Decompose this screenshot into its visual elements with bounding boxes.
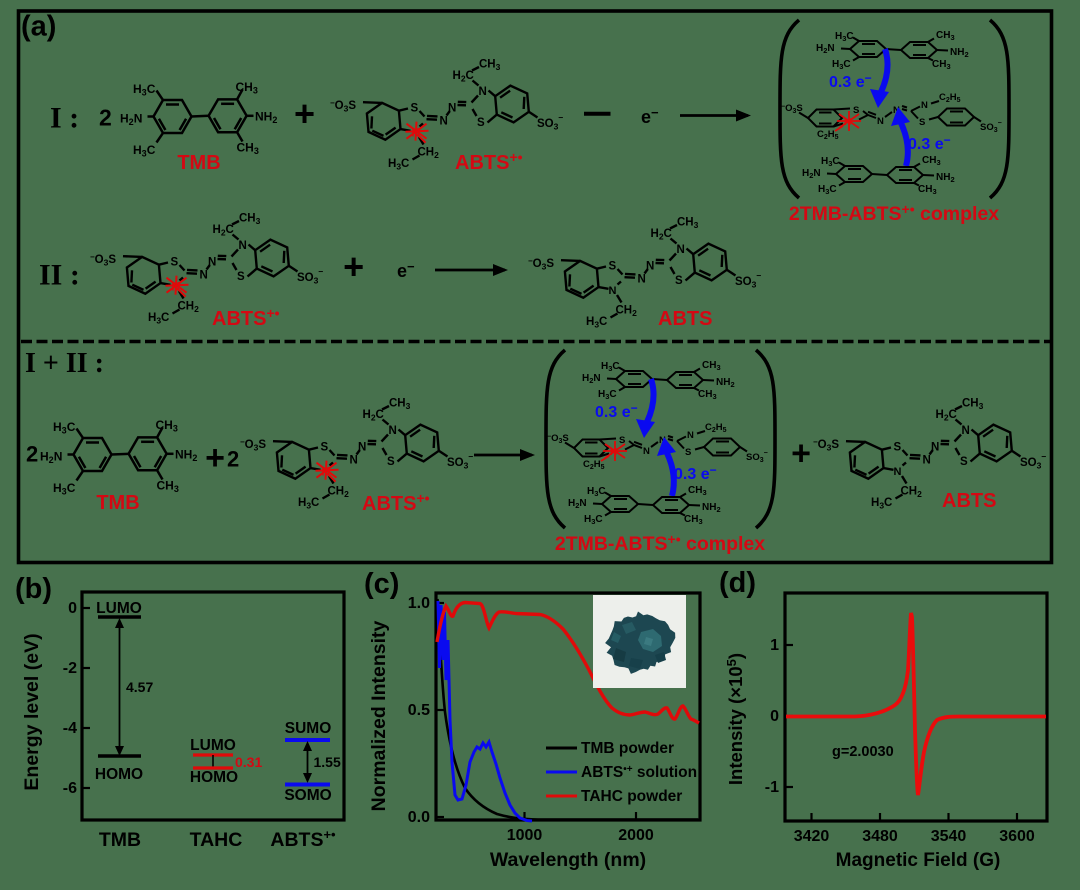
ABTS neutral molecule row III: [813, 398, 1046, 511]
svg-text:TMB: TMB: [177, 152, 220, 174]
reaction arrow row I: [680, 114, 748, 117]
svg-text:1.0: 1.0: [408, 595, 430, 612]
ABTS SUMO blue level: [285, 738, 330, 742]
svg-text:HOMO: HOMO: [95, 766, 143, 783]
svg-text:0: 0: [68, 600, 77, 617]
svg-text:SOMO: SOMO: [284, 787, 331, 804]
svg-text:0.0: 0.0: [408, 809, 430, 826]
svg-text:TMB: TMB: [99, 829, 141, 851]
svg-text:3420: 3420: [794, 828, 830, 845]
svg-text:0: 0: [770, 708, 779, 725]
ABTS radical molecule row III: [240, 398, 473, 511]
svg-text:3540: 3540: [931, 828, 967, 845]
red EPR curve: [786, 613, 1046, 795]
svg-text:I :: I :: [50, 102, 79, 135]
TAHC LUMO red level: [193, 753, 233, 756]
panel (a) frame: [19, 11, 1052, 563]
svg-text:0.31: 0.31: [235, 754, 262, 770]
svg-text:(d): (d): [719, 567, 756, 599]
TMB gap arrow: [119, 621, 121, 753]
svg-text:Intensity (×105): Intensity (×105): [724, 653, 746, 785]
svg-text:TMB: TMB: [96, 492, 139, 514]
svg-text:(a): (a): [21, 11, 56, 43]
svg-text:2: 2: [99, 105, 112, 131]
reaction arrow row II: [435, 269, 505, 272]
svg-text:2000: 2000: [618, 827, 654, 844]
svg-text:Energy level (eV): Energy level (eV): [21, 633, 43, 790]
blue ABTS solution curve: [438, 601, 532, 821]
panel (c) frame: [436, 593, 700, 820]
svg-text:4.57: 4.57: [126, 679, 153, 695]
svg-text:-1: -1: [765, 779, 779, 796]
svg-text:-6: -6: [63, 780, 77, 797]
svg-text:II :: II :: [39, 259, 80, 292]
svg-text:0.5: 0.5: [408, 702, 430, 719]
powder blob: [605, 612, 675, 674]
panel (d) ticks: [785, 645, 1017, 821]
red TAHC powder curve: [437, 603, 699, 724]
complex row I: [780, 20, 1009, 225]
svg-text:I + II :: I + II :: [25, 348, 104, 379]
svg-text:HOMO: HOMO: [190, 769, 238, 786]
reaction arrow row III: [474, 454, 532, 457]
panel (c) y ticks: [436, 603, 636, 820]
ABTS SOMO blue level: [285, 783, 330, 787]
svg-text:-2: -2: [63, 660, 77, 677]
svg-text:+: +: [205, 439, 225, 477]
svg-text:LUMO: LUMO: [190, 737, 236, 754]
svg-text:1000: 1000: [507, 827, 543, 844]
panel (b) y ticks: [82, 608, 90, 788]
ABTS radical molecule row II: [90, 213, 323, 326]
minus sign: [584, 112, 611, 116]
black TMB powder curve: [438, 599, 699, 820]
svg-text:1: 1: [770, 637, 779, 654]
svg-text:LUMO: LUMO: [96, 600, 142, 617]
svg-text:+: +: [791, 435, 811, 473]
TMB molecule row III: [40, 418, 197, 497]
complex row III: [546, 350, 775, 555]
svg-text:2: 2: [26, 442, 38, 467]
svg-text:e−: e−: [641, 105, 659, 127]
svg-text:Wavelength (nm): Wavelength (nm): [490, 849, 646, 871]
TMB LUMO level: [98, 615, 141, 618]
ABTS neutral molecule row II: [528, 217, 761, 330]
svg-text:1.55: 1.55: [314, 754, 341, 770]
TMB HOMO level: [98, 754, 141, 757]
svg-text:+: +: [294, 93, 315, 134]
dashed divider: [21, 340, 1050, 344]
svg-text:ABTS+•: ABTS+•: [212, 305, 280, 330]
svg-text:ABTS: ABTS: [658, 308, 712, 330]
svg-text:TAHC: TAHC: [190, 829, 243, 851]
svg-text:ABTS: ABTS: [942, 490, 996, 512]
TAHC gap arrow: [212, 755, 214, 768]
svg-text:+: +: [343, 246, 364, 287]
svg-text:3480: 3480: [862, 828, 898, 845]
svg-text:ABTS+•: ABTS+•: [455, 149, 523, 174]
svg-text:TAHC powder: TAHC powder: [581, 788, 682, 805]
legend: [546, 748, 577, 796]
svg-text:g=2.0030: g=2.0030: [832, 744, 894, 760]
panel (d) frame: [785, 593, 1047, 821]
svg-text:TMB powder: TMB powder: [581, 740, 674, 757]
svg-text:3600: 3600: [999, 828, 1035, 845]
svg-text:ABTS+•: ABTS+•: [270, 827, 336, 851]
svg-text:(b): (b): [15, 573, 52, 605]
TMB molecule row I: [120, 80, 277, 159]
svg-text:e−: e−: [397, 259, 415, 281]
svg-text:Normalized Intensity: Normalized Intensity: [368, 620, 390, 811]
inset photo white box: [593, 595, 686, 688]
panel (b) frame: [82, 592, 344, 820]
ABTS radical molecule row I: [330, 59, 563, 172]
svg-text:ABTS•+ solution: ABTS•+ solution: [581, 764, 697, 781]
TAHC HOMO red level: [193, 766, 233, 769]
svg-text:2: 2: [227, 447, 239, 472]
svg-text:(c): (c): [364, 568, 399, 600]
svg-text:SUMO: SUMO: [285, 720, 332, 737]
ABTS gap arrow: [307, 744, 309, 780]
svg-text:-4: -4: [63, 720, 77, 737]
svg-text:Magnetic Field (G): Magnetic Field (G): [836, 850, 1001, 871]
svg-text:ABTS+•: ABTS+•: [362, 490, 430, 515]
